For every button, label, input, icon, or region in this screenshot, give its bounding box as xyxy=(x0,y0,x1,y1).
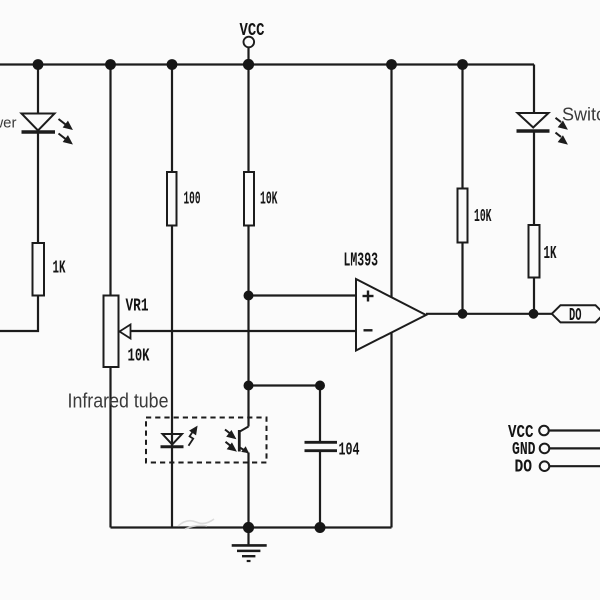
wire: R 100 bottom through IR LED to bottom rail xyxy=(171,226,173,528)
resistor R 1K (power LED) xyxy=(33,243,45,296)
wire: ground stub xyxy=(247,528,249,546)
pin terminal VCC xyxy=(539,426,549,436)
junction on rail at R100 column xyxy=(167,59,178,70)
svg-text:104: 104 xyxy=(339,441,360,461)
resistor R 10K (divider) xyxy=(244,172,254,226)
wire: power LED cathode to R 1K xyxy=(37,131,39,243)
wire: R 1K bottom, down and off-canvas left xyxy=(0,296,38,332)
resistor R 10K (pull-up) xyxy=(458,189,468,243)
wire: R 10K bottom down to phototransistor collector xyxy=(247,226,249,427)
junction: collector node left xyxy=(244,381,254,391)
svg-text:VR1: VR1 xyxy=(126,297,149,317)
op-amp U1 LM393 xyxy=(356,279,426,351)
wire: DO pin lead xyxy=(550,465,600,467)
wire: pull-up bottom to output line xyxy=(461,243,463,314)
LED D3 emission arrows xyxy=(556,118,567,143)
junction on rail at VCC terminal xyxy=(243,59,254,70)
VCC terminal circle xyxy=(244,37,255,48)
wire: bottom ground rail xyxy=(111,526,392,528)
junction: bottom rail at capacitor xyxy=(315,522,326,533)
resistor R 1K (LED branch) xyxy=(529,225,540,278)
svg-text:10K: 10K xyxy=(260,190,278,210)
wire: rail to power LED anode xyxy=(37,65,39,114)
wire: switch LED cathode to R 1K right xyxy=(533,131,535,225)
IR emitter LED D2 xyxy=(161,434,184,447)
svg-text:10K: 10K xyxy=(128,347,150,367)
svg-text:Switch: Switch xyxy=(562,105,600,125)
wire: GND pin lead xyxy=(549,447,600,449)
U1 plus input mark xyxy=(363,291,374,302)
junction: collector node at capacitor xyxy=(315,381,325,391)
wire: rail down to R 10K (divider) xyxy=(247,65,249,173)
wire: VCC pin lead xyxy=(549,429,600,431)
svg-text:DO: DO xyxy=(515,458,533,478)
wire: rail down to R 10K (pull-up) xyxy=(461,65,463,189)
VR1 wiper arrow xyxy=(120,325,131,339)
wire: capacitor bottom lead xyxy=(319,452,321,528)
wire: rail down to VR1 top xyxy=(109,65,111,296)
svg-text:LM393: LM393 xyxy=(344,250,379,272)
Q1 emitter arrowhead xyxy=(241,446,249,453)
svg-text:100: 100 xyxy=(184,190,201,210)
wire: R 1K right bottom to output line xyxy=(533,278,535,314)
wire: rail down to R 100 xyxy=(171,65,173,173)
phototransistor Q1 xyxy=(239,427,248,453)
junction on rail at pull-up column xyxy=(457,59,468,70)
capacitor C1 104 xyxy=(305,442,338,450)
junction: divider node to + input xyxy=(244,291,254,301)
junction: output at pull-up xyxy=(458,309,468,319)
faint watermark smudge xyxy=(178,519,214,529)
svg-text:1K: 1K xyxy=(544,244,557,264)
wire: capacitor top lead xyxy=(319,386,321,442)
IR emitter lightning arrow xyxy=(189,427,197,445)
junction: output at LED branch xyxy=(529,309,539,319)
wire: rail corner to switch LED xyxy=(533,65,535,114)
svg-text:Power: Power xyxy=(0,115,17,132)
pin terminal GND xyxy=(540,444,550,454)
wire: VCC terminal stub xyxy=(247,47,249,65)
wire: inverting input (-) from VR1 wiper xyxy=(131,330,357,332)
svg-text:VCC: VCC xyxy=(240,21,265,41)
LED D3 switch indicator xyxy=(517,113,550,131)
junction on rail at VR1 column xyxy=(105,59,116,70)
DO output tag xyxy=(552,305,600,322)
dashed enclosure: infrared tube pair xyxy=(146,418,267,463)
pin terminal DO xyxy=(540,461,550,471)
ground symbol xyxy=(232,545,267,561)
wire: top VCC rail xyxy=(0,63,534,65)
Q1 incident light arrows xyxy=(225,430,235,451)
svg-text:Infrared tube: Infrared tube xyxy=(68,391,169,413)
U1 minus input mark xyxy=(364,329,373,331)
junction on rail at op-amp supply xyxy=(386,59,397,70)
wire: node to capacitor branch (horizontal) xyxy=(249,384,321,386)
wire: VR1 bottom to bottom rail xyxy=(109,367,111,528)
svg-text:DO: DO xyxy=(569,306,582,326)
wire: op-amp output to DO tag xyxy=(426,313,553,315)
LED D1 emission arrows xyxy=(59,119,72,143)
potentiometer VR1 body xyxy=(104,296,119,368)
wire: op-amp supply line (behind U1) xyxy=(390,65,392,528)
junction: bottom rail at ground xyxy=(243,522,254,533)
junction on rail at power LED column xyxy=(33,59,44,70)
resistor R 100 xyxy=(167,172,177,226)
svg-text:10K: 10K xyxy=(474,207,492,227)
wire: non-inverting input (+) from divider node xyxy=(249,294,357,296)
wire: phototransistor emitter to bottom rail xyxy=(247,453,249,528)
svg-text:1K: 1K xyxy=(53,259,66,279)
LED D1 power indicator xyxy=(22,114,56,133)
